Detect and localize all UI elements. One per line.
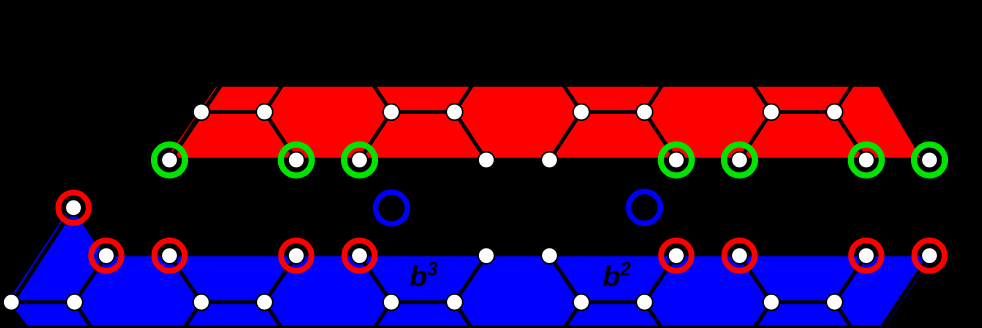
node E2 <box>66 294 82 310</box>
node B8 <box>826 104 842 120</box>
node A4 <box>478 152 494 168</box>
green ring at A x=866 <box>851 145 882 176</box>
red ring at D x=296 <box>281 240 311 270</box>
wire: clipped bond up-right from B at x=454 <box>455 84 474 112</box>
node B3 <box>383 104 399 120</box>
wire: lower-row bond E3-E4 <box>201 300 264 304</box>
node A7 <box>731 152 747 168</box>
wire: slanted bond B-A #8 <box>835 112 867 160</box>
node D6 <box>541 247 557 263</box>
node D4 <box>351 247 367 263</box>
node D5 <box>478 247 494 263</box>
wire: bond apex-D1 <box>74 208 107 256</box>
wire: slanted bond A-B #1 <box>170 112 202 160</box>
green ring at A x=740 <box>724 145 755 176</box>
wire: clipped bond down-left from E at x=581 <box>565 302 582 327</box>
green ring at A x=296 <box>281 145 312 176</box>
node A1 <box>161 152 177 168</box>
green ring at A x=360 <box>344 145 375 176</box>
wire: slanted bond D-E #2 <box>170 256 202 303</box>
node D9 <box>858 247 874 263</box>
node A8 <box>858 152 874 168</box>
node B5 <box>573 104 589 120</box>
green ring at A x=170 <box>154 145 185 176</box>
red ring at D x=676 <box>661 240 691 270</box>
node E5 <box>383 294 399 310</box>
wire: slanted bond A-B #3 <box>360 112 392 160</box>
node E6 <box>446 294 462 310</box>
node A3 <box>351 152 367 168</box>
wire: slanted bond A-B #5 <box>550 112 582 160</box>
wire: clipped bond down-right from E at x=264 <box>265 302 282 327</box>
wire: lower-row bond E9-E10 <box>771 300 834 304</box>
wire: slanted bond D-E #8 <box>740 256 772 303</box>
red ring at D x=930 <box>914 240 944 270</box>
wire: red strip left cut line through nodes A1,B1 <box>170 85 221 161</box>
red strip (top hexagonal band) <box>167 87 921 158</box>
wire: slanted bond D-E #4 <box>360 256 392 303</box>
wire: slanted bond B-A #6 <box>645 112 677 160</box>
red ring at D x=866 <box>851 240 881 270</box>
node B6 <box>636 104 652 120</box>
wire: upper-row bond B7-B8 <box>771 110 834 114</box>
wire: clipped bond down-left from E at x=391 <box>375 302 392 327</box>
red ring at apex node <box>58 193 88 223</box>
wire: slanted bond D-E #7 <box>645 256 677 303</box>
wire: slanted bond D-E #9 <box>835 256 867 303</box>
wire: upper-row bond B3-B4 <box>391 110 454 114</box>
red ring at D x=170 <box>154 240 184 270</box>
wire: upper-row bond B5-B6 <box>581 110 644 114</box>
node E8 <box>636 294 652 310</box>
wire: clipped bond up-left from B at x=581 <box>563 84 582 112</box>
wire: lower-row bond E1-E2 <box>11 300 74 304</box>
green ring at A x=676 <box>661 145 692 176</box>
blue ring (empty site) left <box>376 192 408 224</box>
wire: blue strip left cut line E1 to apex <box>11 208 73 304</box>
wire: slanted bond D-E #6 <box>550 256 582 303</box>
wire: clipped bond up-right from B at x=644 <box>645 84 664 112</box>
wire: clipped bond up-right from B at x=264 <box>265 84 284 112</box>
node A2 <box>288 152 304 168</box>
node E1 <box>3 294 19 310</box>
wire: lower-row bond E7-E8 <box>581 300 644 304</box>
node E9 <box>763 294 779 310</box>
node E10 <box>826 294 842 310</box>
node D3 <box>288 247 304 263</box>
wire: clipped bond up-left from B at x=391 <box>373 84 392 112</box>
blue ring (empty site) right <box>629 192 661 224</box>
wire: slanted bond D-E #3 <box>265 256 297 303</box>
node B4 <box>446 104 462 120</box>
node E7 <box>573 294 589 310</box>
wire: blue strip right cut line from D10 <box>883 256 930 326</box>
wire: clipped bond up-left from B at x=771 <box>753 84 772 112</box>
red ring at D x=740 <box>724 240 754 270</box>
node B7 <box>763 104 779 120</box>
node A5 <box>541 152 557 168</box>
blue strip (bottom hexagonal band with top-left spike) <box>8 206 932 325</box>
wire: slanted bond B-A #4 <box>455 112 487 160</box>
node D8 <box>731 247 747 263</box>
wire: clipped bond down-right from E at x=454 <box>455 302 472 327</box>
wire: upper-row bond B1-B2 <box>201 110 264 114</box>
red ring at D x=106 <box>91 240 121 270</box>
wire: clipped bond up-right from B at x=834 <box>835 84 854 112</box>
wire: slanted bond B-A #2 <box>265 112 297 160</box>
node D1 <box>98 247 114 263</box>
wire: lower-row bond E5-E6 <box>391 300 454 304</box>
wire: clipped bond down-left from E at x=201 <box>185 302 202 327</box>
wire: slanted bond A-B #7 <box>740 112 772 160</box>
node B2 <box>256 104 272 120</box>
node D7 <box>668 247 684 263</box>
wire: slanted bond D-E #1 <box>75 256 107 303</box>
node B1 <box>193 104 209 120</box>
node A9 <box>921 152 937 168</box>
node D2 <box>161 247 177 263</box>
node D10 <box>921 247 937 263</box>
wire: clipped bond down-right from E at x=644 <box>645 302 662 327</box>
node E3 <box>193 294 209 310</box>
wire: slanted bond D-E #5 <box>455 256 487 303</box>
wire: clipped bond down-right from E at x=74 <box>75 302 92 327</box>
green ring at A x=930 <box>914 145 945 176</box>
node apex C1 <box>65 200 81 216</box>
wire: clipped bond down-right from E at x=834 <box>835 302 852 327</box>
node E4 <box>256 294 272 310</box>
node A6 <box>668 152 684 168</box>
wire: clipped bond down-left from E at x=771 <box>755 302 772 327</box>
red ring at D x=360 <box>344 240 374 270</box>
